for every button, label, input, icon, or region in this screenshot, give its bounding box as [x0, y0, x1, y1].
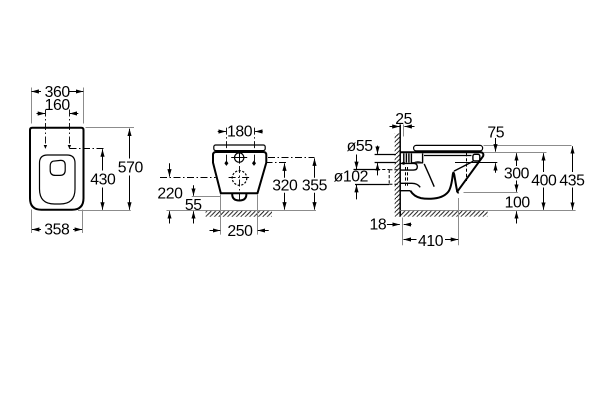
seat buffer square: [473, 154, 480, 161]
dimension 180: [218, 131, 226, 133]
water surface outline: [50, 160, 65, 175]
bowl inner front line: [454, 161, 473, 171]
centerline fixing hole right (front): [254, 128, 256, 163]
extension line 358 right: [82, 210, 84, 234]
svg-text:410: 410: [418, 233, 444, 250]
dimension 55: [193, 185, 195, 196]
svg-text:100: 100: [505, 195, 531, 212]
dimension 18: [387, 224, 400, 226]
extension line bowl bottom (300/100 ref): [464, 192, 518, 194]
svg-text:358: 358: [44, 222, 70, 239]
svg-text:55: 55: [185, 197, 202, 214]
dimension 430: [102, 149, 104, 170]
dimension ø55 arrows: [377, 146, 379, 154]
drain centerline vertical: [239, 166, 241, 201]
wall face line: [399, 124, 401, 216]
wall hatching: [395, 134, 401, 217]
toilet outline (plan view): [30, 128, 84, 210]
floor line (front): [167, 210, 317, 212]
svg-text:250: 250: [227, 223, 253, 240]
svg-text:435: 435: [559, 173, 585, 190]
drain axis centerline (front, left): [160, 177, 216, 179]
dimension 320: [284, 163, 286, 177]
centerline fixing axis (front, right): [266, 162, 287, 164]
drain circle (front): [232, 171, 247, 186]
rim top and front slope (side outline): [400, 152, 483, 192]
centerline inlet axis (front, right): [268, 157, 315, 159]
floor hatching (front): [206, 211, 272, 217]
drain pipe hidden top line (ø102): [354, 169, 378, 171]
svg-text:430: 430: [90, 171, 116, 188]
extension line 250 left: [220, 195, 222, 235]
dimension 410: [404, 239, 417, 241]
outlet bump (front): [232, 193, 246, 200]
flush screw symbol: [235, 153, 244, 162]
dimension 355: [314, 158, 316, 177]
svg-text:220: 220: [157, 185, 183, 202]
bracket box (side): [411, 153, 423, 162]
extension line 250 right: [257, 195, 259, 235]
extension line 25: [403, 125, 405, 137]
fixing axis line (side): [455, 162, 497, 164]
inlet stub (side): [400, 163, 417, 170]
dimension 75: [495, 138, 497, 152]
bowl interior back slope: [424, 164, 434, 187]
drain stub bottom (side): [400, 190, 410, 192]
svg-text:25: 25: [395, 111, 412, 128]
extension line 410 left: [402, 218, 404, 246]
hidden line in bowl (dashed): [466, 153, 468, 181]
plate dot: [402, 162, 405, 165]
centerline fixing hole left (front): [226, 128, 228, 163]
seat profile (side): [414, 145, 483, 151]
dimension 250: [210, 230, 221, 232]
svg-text:ø55: ø55: [347, 138, 374, 155]
svg-text:300: 300: [504, 166, 530, 183]
drain centerline horizontal: [229, 177, 250, 179]
bowl rim (plan view): [40, 155, 76, 204]
centerline horizontal (fixing axis): [70, 148, 105, 150]
svg-text:ø102: ø102: [334, 169, 368, 186]
inner rim line (side): [424, 155, 472, 157]
extension line rim top (400/300 ref): [484, 152, 547, 154]
svg-text:180: 180: [227, 124, 253, 141]
extension line 358 left: [31, 210, 33, 234]
dimension 570: [129, 129, 131, 159]
inlet pipe lines (ø55): [375, 154, 396, 156]
extension line 55 (rim bottom): [192, 196, 221, 198]
svg-text:355: 355: [302, 178, 328, 195]
dimension 400: [543, 153, 545, 172]
dimension 358: [32, 229, 41, 231]
hidden inlet pipe in bowl (dashed): [405, 167, 407, 186]
floor line (side): [400, 210, 575, 212]
seat band (front): [214, 145, 265, 151]
dimension 300: [516, 153, 518, 166]
body outline (front): [213, 152, 266, 193]
extension line top (570): [86, 127, 135, 129]
dimension 100: [516, 211, 518, 223]
extension line 360 right: [83, 88, 85, 124]
svg-text:570: 570: [118, 159, 144, 176]
bracket lens detail: [413, 161, 421, 163]
drain pipe through wall (hidden box): [389, 170, 400, 184]
svg-text:320: 320: [272, 178, 298, 195]
floor hatching (side): [401, 211, 488, 217]
dimension 435: [572, 146, 574, 172]
drain pipe bottom line (ø102): [355, 184, 389, 186]
drain stub top with trap left (side): [400, 183, 420, 187]
trap outer U: [410, 172, 458, 198]
svg-text:400: 400: [531, 173, 557, 190]
extension line seat top (435 ref): [484, 145, 572, 147]
dimension 220: [169, 163, 171, 176]
dimension 25: [390, 126, 400, 128]
centerline fixing hole left: [45, 110, 47, 148]
extension line 410 right: [458, 198, 460, 245]
centerline fixing hole right: [69, 110, 71, 148]
extension line 360 left: [31, 88, 33, 124]
fixing plate hatch bars: [404, 153, 409, 162]
dimension 160: [37, 113, 46, 115]
svg-text:75: 75: [487, 124, 504, 141]
extension line bottom (570/430): [78, 210, 131, 212]
svg-text:18: 18: [370, 217, 387, 234]
dimension 360: [31, 91, 41, 93]
svg-text:160: 160: [45, 97, 71, 114]
dimension ø102 arrows: [356, 155, 358, 170]
